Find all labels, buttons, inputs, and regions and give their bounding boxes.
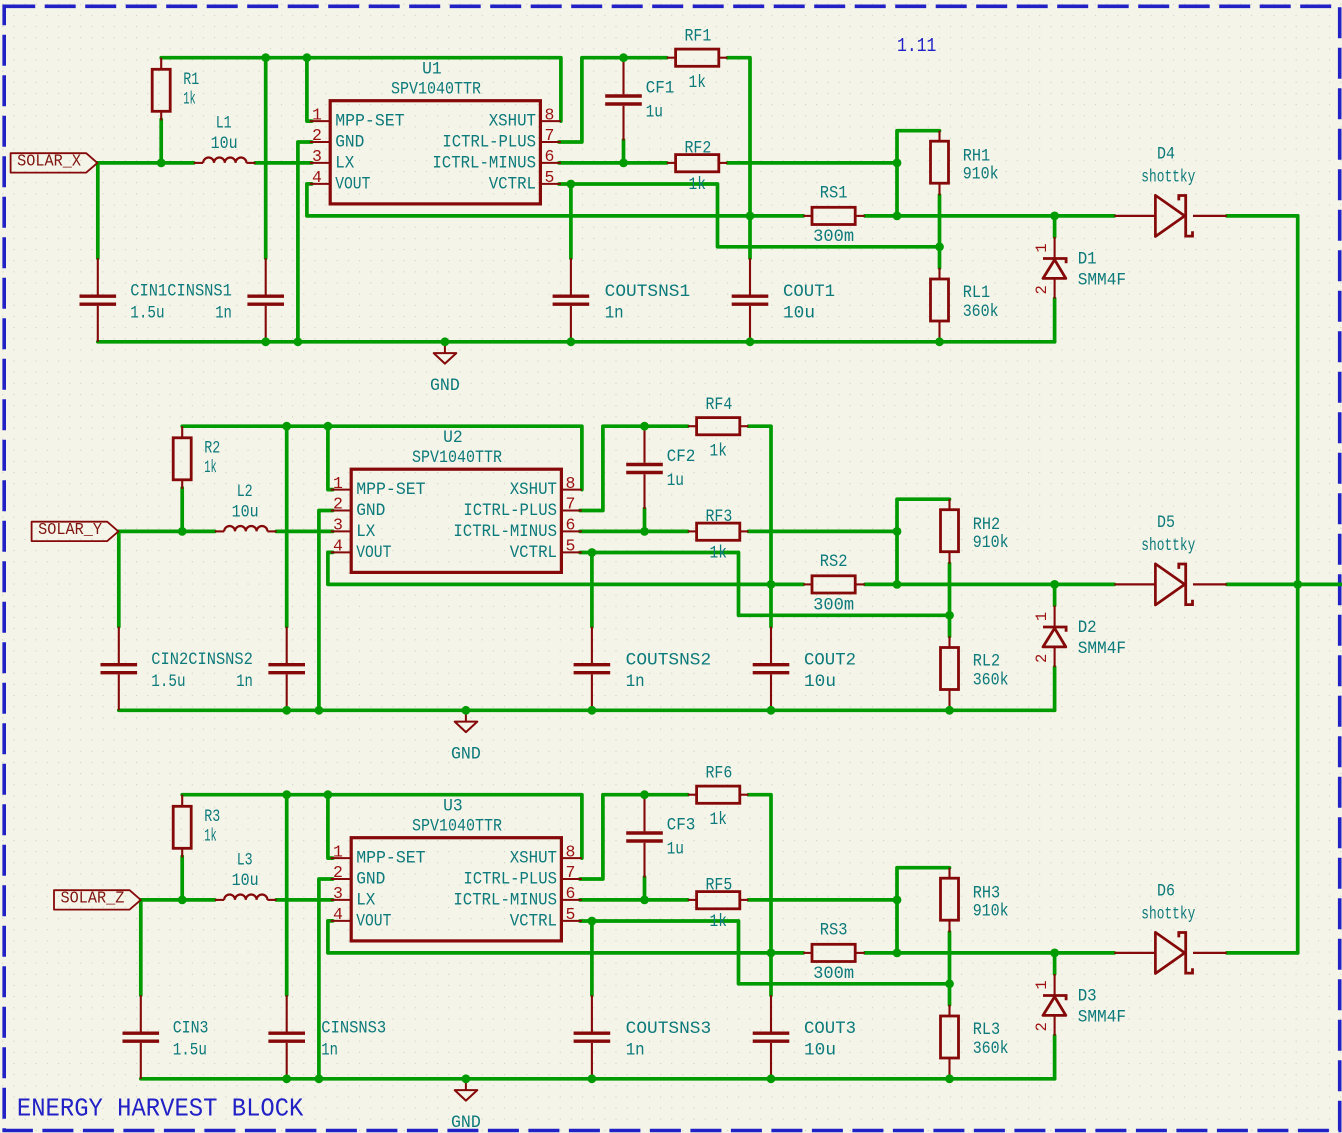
junction pin2 drop / GND rail xyxy=(294,337,303,346)
wire VOUT pin 4 to RS xyxy=(307,184,803,216)
wire GND pin 2 xyxy=(319,511,333,711)
pin 2 GND xyxy=(310,141,330,143)
resistor RH1 910k xyxy=(938,131,940,142)
pin 7 ICTRL-PLUS xyxy=(540,141,561,143)
junction feedback divider tap xyxy=(945,979,954,988)
global label SOLAR_Y xyxy=(32,522,119,541)
pin 6 ICTRL-MINUS xyxy=(540,162,561,164)
svg-text:COUT3: COUT3 xyxy=(804,1019,856,1039)
svg-text:5: 5 xyxy=(566,905,576,924)
svg-text:COUT1: COUT1 xyxy=(783,282,835,302)
svg-text:SOLAR_X: SOLAR_X xyxy=(17,152,81,171)
svg-text:VOUT: VOUT xyxy=(335,175,370,195)
resistor RL3 360k xyxy=(948,1005,950,1016)
junction CINSNS / GND rail xyxy=(261,337,270,346)
wire MPP-SET pin 1 xyxy=(307,58,312,121)
svg-text:5: 5 xyxy=(566,537,576,556)
svg-text:U2: U2 xyxy=(443,428,463,448)
svg-text:RS1: RS1 xyxy=(820,184,848,204)
resistor RL2 360k xyxy=(948,636,950,647)
svg-text:1k: 1k xyxy=(183,89,196,109)
junction feedback divider tap xyxy=(935,242,944,251)
IC U1 SPV1040TTR xyxy=(330,101,540,204)
svg-text:RS2: RS2 xyxy=(820,552,848,572)
resistor R1 xyxy=(160,58,162,70)
resistor RS1 xyxy=(803,215,812,217)
svg-text:1: 1 xyxy=(333,474,343,493)
junction COUTSNS / GND rail xyxy=(588,1074,597,1083)
svg-text:RL3: RL3 xyxy=(973,1020,1001,1040)
svg-text:RF1: RF1 xyxy=(685,26,712,46)
wire RH bottom / RL top xyxy=(938,195,942,268)
svg-text:VCTRL: VCTRL xyxy=(510,912,557,932)
junction RS out / zener diode xyxy=(1050,580,1059,589)
svg-text:RF3: RF3 xyxy=(706,507,733,527)
wire SOLAR input horizontal xyxy=(118,530,214,534)
wire COUTSNS drop xyxy=(569,184,573,258)
svg-text:300m: 300m xyxy=(813,964,854,984)
svg-text:CIN1CINSNS1: CIN1CINSNS1 xyxy=(130,282,232,302)
resistor RF6 xyxy=(688,794,697,796)
wire MPP-SET net top rail xyxy=(182,795,582,858)
svg-text:SOLAR_Z: SOLAR_Z xyxy=(61,889,125,908)
svg-text:10u: 10u xyxy=(211,134,238,154)
wire ICTRL-MINUS pin 6 to RF xyxy=(559,161,667,165)
wire SOLAR input horizontal xyxy=(97,161,193,165)
junction VCTRL / COUTSNS tap xyxy=(588,917,597,926)
capacitor CF3 xyxy=(643,795,645,832)
wire XSHUT pin 7 riser xyxy=(559,58,667,142)
svg-text:2: 2 xyxy=(333,863,343,882)
svg-text:910k: 910k xyxy=(963,164,999,184)
wire CF bottom xyxy=(643,877,647,900)
junction pin1 riser / MPP net xyxy=(324,790,333,799)
svg-text:GND: GND xyxy=(451,1113,481,1133)
svg-text:1k: 1k xyxy=(710,810,727,830)
inductor L1 xyxy=(194,162,203,164)
svg-text:3: 3 xyxy=(333,516,343,535)
junction GND symbol / GND rail xyxy=(441,337,450,346)
wire MPP-SET pin 1 xyxy=(328,795,333,858)
svg-text:1: 1 xyxy=(1033,243,1051,252)
svg-text:D5: D5 xyxy=(1157,513,1175,533)
wire schottky cathode out xyxy=(1227,214,1298,218)
wire XSHUT pin 7 riser xyxy=(580,426,688,510)
svg-text:XSHUT: XSHUT xyxy=(510,849,557,869)
svg-text:1n: 1n xyxy=(215,304,232,324)
junction VCTRL / COUTSNS tap xyxy=(588,548,597,557)
svg-text:SMM4F: SMM4F xyxy=(1078,1008,1126,1028)
pin 3 LX xyxy=(310,162,330,164)
svg-text:R2: R2 xyxy=(204,439,220,459)
svg-text:1.5u: 1.5u xyxy=(151,672,185,692)
svg-text:910k: 910k xyxy=(973,901,1009,921)
junction CINSNS top / MPP net xyxy=(282,422,291,431)
svg-text:1n: 1n xyxy=(605,304,624,324)
svg-text:1u: 1u xyxy=(646,103,663,123)
svg-text:SMM4F: SMM4F xyxy=(1078,639,1126,659)
svg-text:GND: GND xyxy=(356,501,385,521)
svg-text:XSHUT: XSHUT xyxy=(510,480,557,500)
junction VOUT net / COUT tap xyxy=(767,580,776,589)
svg-text:4: 4 xyxy=(333,537,343,556)
svg-text:LX: LX xyxy=(356,522,376,542)
wire RF top right corner down xyxy=(727,58,750,216)
junction CINSNS top / MPP net xyxy=(282,790,291,799)
junction COUTSNS / GND rail xyxy=(588,706,597,715)
junction GND symbol / GND rail xyxy=(462,706,471,715)
svg-text:GND: GND xyxy=(430,376,460,396)
wire divider top hook xyxy=(897,131,940,216)
svg-text:SOLAR_Y: SOLAR_Y xyxy=(38,520,102,539)
junction RS out / divider riser xyxy=(893,949,902,958)
capacitor COUT3 10u xyxy=(770,995,772,1031)
wire ICTRL-MINUS pin 6 to RF xyxy=(580,530,688,534)
wire output bus vertical xyxy=(1296,216,1300,953)
pin 8 XSHUT xyxy=(540,120,561,122)
junction VCTRL / COUTSNS tap xyxy=(567,180,576,189)
pin 7 ICTRL-PLUS xyxy=(561,510,582,512)
capacitor CINSNS1 xyxy=(265,258,267,294)
svg-text:1n: 1n xyxy=(321,1041,338,1061)
resistor RH3 910k xyxy=(948,868,950,879)
svg-text:4: 4 xyxy=(333,905,343,924)
svg-text:300m: 300m xyxy=(813,227,854,247)
wire ICTRL-MINUS pin 6 to RF xyxy=(580,898,688,902)
wire schottky cathode out xyxy=(1227,583,1298,587)
svg-text:COUTSNS3: COUTSNS3 xyxy=(626,1019,712,1039)
wire COUT drop xyxy=(769,953,773,995)
resistor RS2 xyxy=(803,583,812,585)
svg-text:300m: 300m xyxy=(813,596,854,616)
svg-text:CIN3: CIN3 xyxy=(173,1019,209,1039)
junction CF bottom / ICTRL-MINUS net xyxy=(640,527,649,536)
junction output bus / D5 xyxy=(1293,580,1302,589)
capacitor CINSNS3 xyxy=(286,995,288,1031)
svg-text:GND: GND xyxy=(451,745,481,765)
svg-text:1k: 1k xyxy=(710,442,727,462)
pin 3 LX xyxy=(331,899,351,901)
svg-text:10u: 10u xyxy=(804,672,836,692)
svg-text:360k: 360k xyxy=(963,302,999,322)
resistor RF2 xyxy=(667,162,676,164)
wire MPP-SET pin 1 xyxy=(328,426,333,489)
junction VOUT net / COUT tap xyxy=(767,949,776,958)
wire RS output xyxy=(865,214,1114,218)
global label SOLAR_X xyxy=(11,153,98,172)
wire RS output xyxy=(865,583,1114,587)
pin 8 XSHUT xyxy=(561,857,582,859)
svg-text:RH2: RH2 xyxy=(973,515,1001,535)
svg-text:8: 8 xyxy=(566,474,576,493)
svg-text:RF2: RF2 xyxy=(685,138,712,158)
junction RF out / divider riser xyxy=(893,896,902,905)
svg-text:7: 7 xyxy=(566,863,576,882)
svg-text:360k: 360k xyxy=(973,671,1009,691)
junction RS out / zener diode xyxy=(1050,949,1059,958)
junction feedback divider tap xyxy=(945,611,954,620)
wire VCTRL pin 5 feedback xyxy=(559,184,940,247)
svg-text:1u: 1u xyxy=(667,471,684,491)
svg-text:10u: 10u xyxy=(783,304,815,324)
svg-text:1.5u: 1.5u xyxy=(130,304,164,324)
svg-text:2: 2 xyxy=(1033,285,1051,294)
wire RH bottom / RL top xyxy=(948,564,952,637)
svg-text:RF6: RF6 xyxy=(706,763,733,783)
svg-text:SPV1040TTR: SPV1040TTR xyxy=(412,816,502,836)
svg-text:1: 1 xyxy=(312,105,322,124)
svg-text:MPP-SET: MPP-SET xyxy=(335,112,404,132)
junction CF top / ICTRL-PLUS net xyxy=(619,53,628,62)
svg-text:1: 1 xyxy=(1033,980,1051,989)
svg-text:1k: 1k xyxy=(204,826,217,846)
junction RF out / divider riser xyxy=(893,159,902,168)
svg-text:4: 4 xyxy=(312,168,322,187)
junction COUT / GND rail xyxy=(746,337,755,346)
wire GND bottom rail xyxy=(98,340,1055,344)
junction GND symbol / GND rail xyxy=(462,1074,471,1083)
wire SOLAR input horizontal xyxy=(141,898,215,902)
pin 4 VOUT xyxy=(331,551,351,553)
svg-text:D6: D6 xyxy=(1157,881,1175,901)
svg-text:5: 5 xyxy=(545,168,555,187)
capacitor CF1 xyxy=(622,58,624,95)
svg-text:1k: 1k xyxy=(710,912,727,932)
pin 1 MPP-SET xyxy=(331,489,351,491)
svg-text:LX: LX xyxy=(335,154,355,174)
svg-text:CF3: CF3 xyxy=(667,815,696,835)
pin 2 GND xyxy=(331,878,351,880)
wire VOUT pin 4 to RS xyxy=(328,921,803,953)
wire schottky cathode out xyxy=(1227,951,1298,955)
resistor RF3 xyxy=(688,530,697,532)
svg-text:1k: 1k xyxy=(204,458,217,478)
junction CINSNS / GND rail xyxy=(282,1074,291,1083)
svg-text:MPP-SET: MPP-SET xyxy=(356,849,425,869)
svg-text:910k: 910k xyxy=(973,533,1009,553)
svg-text:shottky: shottky xyxy=(1141,536,1195,556)
svg-text:VCTRL: VCTRL xyxy=(510,543,557,563)
wire input cap drop xyxy=(96,163,100,258)
pin 5 VCTRL xyxy=(540,183,561,185)
svg-text:RF4: RF4 xyxy=(706,395,733,415)
capacitor COUT1 10u xyxy=(749,258,751,294)
svg-text:GND: GND xyxy=(356,870,385,890)
junction R bottom / input net xyxy=(178,896,187,905)
capacitor CF2 xyxy=(643,426,645,463)
wire GND pin 2 xyxy=(298,142,312,342)
svg-text:ICTRL-MINUS: ICTRL-MINUS xyxy=(432,154,536,174)
wire MPP-SET net top rail xyxy=(161,58,561,121)
svg-text:LX: LX xyxy=(356,891,376,911)
global label SOLAR_Z xyxy=(54,890,141,909)
junction COUTSNS / GND rail xyxy=(567,337,576,346)
junction pin2 drop / GND rail xyxy=(315,706,324,715)
pin 6 ICTRL-MINUS xyxy=(561,530,582,532)
junction RL / GND rail xyxy=(945,706,954,715)
capacitor CIN1 xyxy=(97,258,99,294)
junction CINSNS / GND rail xyxy=(282,706,291,715)
capacitor CIN2 xyxy=(118,627,120,663)
svg-text:R1: R1 xyxy=(183,70,199,90)
svg-text:ICTRL-MINUS: ICTRL-MINUS xyxy=(453,891,557,911)
junction COUT / GND rail xyxy=(767,1074,776,1083)
svg-text:CINSNS3: CINSNS3 xyxy=(321,1019,386,1039)
svg-text:10u: 10u xyxy=(804,1041,836,1061)
junction CF bottom / ICTRL-MINUS net xyxy=(640,896,649,905)
pin 7 ICTRL-PLUS xyxy=(561,878,582,880)
wire divider top hook xyxy=(897,499,950,584)
pin 5 VCTRL xyxy=(561,920,582,922)
svg-text:1: 1 xyxy=(333,842,343,861)
svg-text:D4: D4 xyxy=(1157,144,1175,164)
pin 6 ICTRL-MINUS xyxy=(561,899,582,901)
svg-text:VCTRL: VCTRL xyxy=(489,175,536,195)
wire GND bottom rail xyxy=(119,708,1055,712)
wire MPP-SET net top rail xyxy=(182,426,582,489)
svg-text:shottky: shottky xyxy=(1141,904,1195,924)
wire input cap drop xyxy=(117,531,121,626)
capacitor COUTSNS3 xyxy=(591,995,593,1031)
wire input cap drop xyxy=(139,900,143,995)
svg-text:U3: U3 xyxy=(443,797,463,817)
diode D4 shottky xyxy=(1114,215,1155,217)
pin 3 LX xyxy=(331,530,351,532)
svg-text:7: 7 xyxy=(545,126,555,145)
svg-text:ICTRL-PLUS: ICTRL-PLUS xyxy=(442,133,536,153)
svg-text:L2: L2 xyxy=(237,482,253,502)
junction VOUT net / COUT tap xyxy=(746,212,755,221)
junction RS out / zener diode xyxy=(1050,212,1059,221)
svg-text:RL2: RL2 xyxy=(973,652,1001,672)
diode D6 shottky xyxy=(1114,952,1155,954)
svg-text:RH1: RH1 xyxy=(963,146,991,166)
svg-text:2: 2 xyxy=(333,495,343,514)
junction RF out / divider riser xyxy=(893,527,902,536)
diode D5 shottky xyxy=(1114,583,1155,585)
diode D3 SMM4F xyxy=(1054,974,1056,996)
IC U3 SPV1040TTR xyxy=(351,838,561,941)
svg-text:3: 3 xyxy=(333,884,343,903)
wire divider top hook xyxy=(897,868,950,953)
junction RL / GND rail xyxy=(945,1074,954,1083)
svg-text:R3: R3 xyxy=(204,807,220,827)
svg-text:2: 2 xyxy=(312,126,322,145)
ground symbol GND xyxy=(444,342,446,353)
junction RS out / divider riser xyxy=(893,580,902,589)
resistor R3 xyxy=(181,795,183,807)
resistor RS3 xyxy=(803,952,812,954)
diode D2 SMM4F xyxy=(1054,606,1056,628)
wire zener top xyxy=(1053,216,1057,237)
capacitor COUTSNS1 xyxy=(570,258,572,294)
svg-text:1n: 1n xyxy=(236,672,253,692)
wire COUTSNS drop xyxy=(590,921,594,995)
svg-text:ENERGY HARVEST BLOCK: ENERGY HARVEST BLOCK xyxy=(17,1094,304,1124)
svg-text:L3: L3 xyxy=(237,850,253,870)
wire CINSNS vertical xyxy=(285,426,289,627)
junction RS out / divider riser xyxy=(893,212,902,221)
wire CF bottom xyxy=(643,509,647,532)
wire RH bottom / RL top xyxy=(948,932,952,1005)
svg-text:SPV1040TTR: SPV1040TTR xyxy=(412,448,502,468)
ground symbol GND xyxy=(465,1079,467,1090)
pin 5 VCTRL xyxy=(561,551,582,553)
wire VCTRL pin 5 feedback xyxy=(580,553,950,616)
svg-text:1: 1 xyxy=(1033,612,1051,621)
junction pin1 riser / MPP net xyxy=(303,53,312,62)
svg-text:XSHUT: XSHUT xyxy=(489,112,536,132)
svg-text:1n: 1n xyxy=(626,1041,645,1061)
svg-text:MPP-SET: MPP-SET xyxy=(356,480,425,500)
svg-text:RS3: RS3 xyxy=(820,921,848,941)
svg-text:U1: U1 xyxy=(422,60,442,80)
svg-text:CF1: CF1 xyxy=(646,78,675,98)
wire COUTSNS drop xyxy=(590,553,594,627)
svg-text:1u: 1u xyxy=(667,840,684,860)
capacitor COUTSNS2 xyxy=(591,627,593,663)
pin 1 MPP-SET xyxy=(310,120,330,122)
svg-text:1k: 1k xyxy=(689,73,706,93)
wire RF top right corner down xyxy=(748,426,771,584)
svg-text:1k: 1k xyxy=(710,544,727,564)
svg-text:6: 6 xyxy=(566,884,576,903)
junction CF top / ICTRL-PLUS net xyxy=(640,790,649,799)
junction R bottom / input net xyxy=(178,527,187,536)
wire zener top xyxy=(1053,953,1057,974)
svg-text:RH3: RH3 xyxy=(973,883,1001,903)
pin 8 XSHUT xyxy=(561,489,582,491)
svg-text:10u: 10u xyxy=(232,502,259,522)
svg-text:SMM4F: SMM4F xyxy=(1078,271,1126,291)
resistor RH2 910k xyxy=(948,499,950,510)
wire RF top right corner down xyxy=(748,795,771,953)
svg-text:8: 8 xyxy=(566,842,576,861)
svg-text:COUTSNS2: COUTSNS2 xyxy=(626,650,712,670)
junction CF bottom / ICTRL-MINUS net xyxy=(619,159,628,168)
svg-text:6: 6 xyxy=(545,147,555,166)
wire CF bottom xyxy=(622,140,626,163)
svg-text:D1: D1 xyxy=(1078,250,1097,270)
inductor L2 xyxy=(215,530,224,532)
svg-text:COUTSNS1: COUTSNS1 xyxy=(605,282,691,302)
svg-text:RF5: RF5 xyxy=(706,875,733,895)
junction RL / GND rail xyxy=(935,337,944,346)
svg-text:CF2: CF2 xyxy=(667,447,696,467)
inductor L3 xyxy=(215,899,224,901)
svg-text:SPV1040TTR: SPV1040TTR xyxy=(391,79,481,99)
resistor RL1 360k xyxy=(938,268,940,279)
pin 2 GND xyxy=(331,510,351,512)
wire R3 bottom to input net xyxy=(180,856,184,900)
svg-text:COUT2: COUT2 xyxy=(804,650,856,670)
svg-text:360k: 360k xyxy=(973,1039,1009,1059)
junction COUT / GND rail xyxy=(767,706,776,715)
svg-text:ICTRL-PLUS: ICTRL-PLUS xyxy=(463,870,557,890)
IC U2 SPV1040TTR xyxy=(351,469,561,572)
svg-text:VOUT: VOUT xyxy=(356,912,391,932)
capacitor CIN3 xyxy=(140,995,142,1031)
pin 4 VOUT xyxy=(310,183,330,185)
wire R1 bottom to input net xyxy=(159,119,163,162)
capacitor CINSNS2 xyxy=(286,627,288,663)
junction pin2 drop / GND rail xyxy=(315,1074,324,1083)
wire GND bottom rail xyxy=(141,1077,1055,1081)
svg-text:ICTRL-MINUS: ICTRL-MINUS xyxy=(453,522,557,542)
wire RF bottom right to divider xyxy=(748,898,897,902)
svg-text:1k: 1k xyxy=(689,175,706,195)
wire RS output xyxy=(865,951,1114,955)
